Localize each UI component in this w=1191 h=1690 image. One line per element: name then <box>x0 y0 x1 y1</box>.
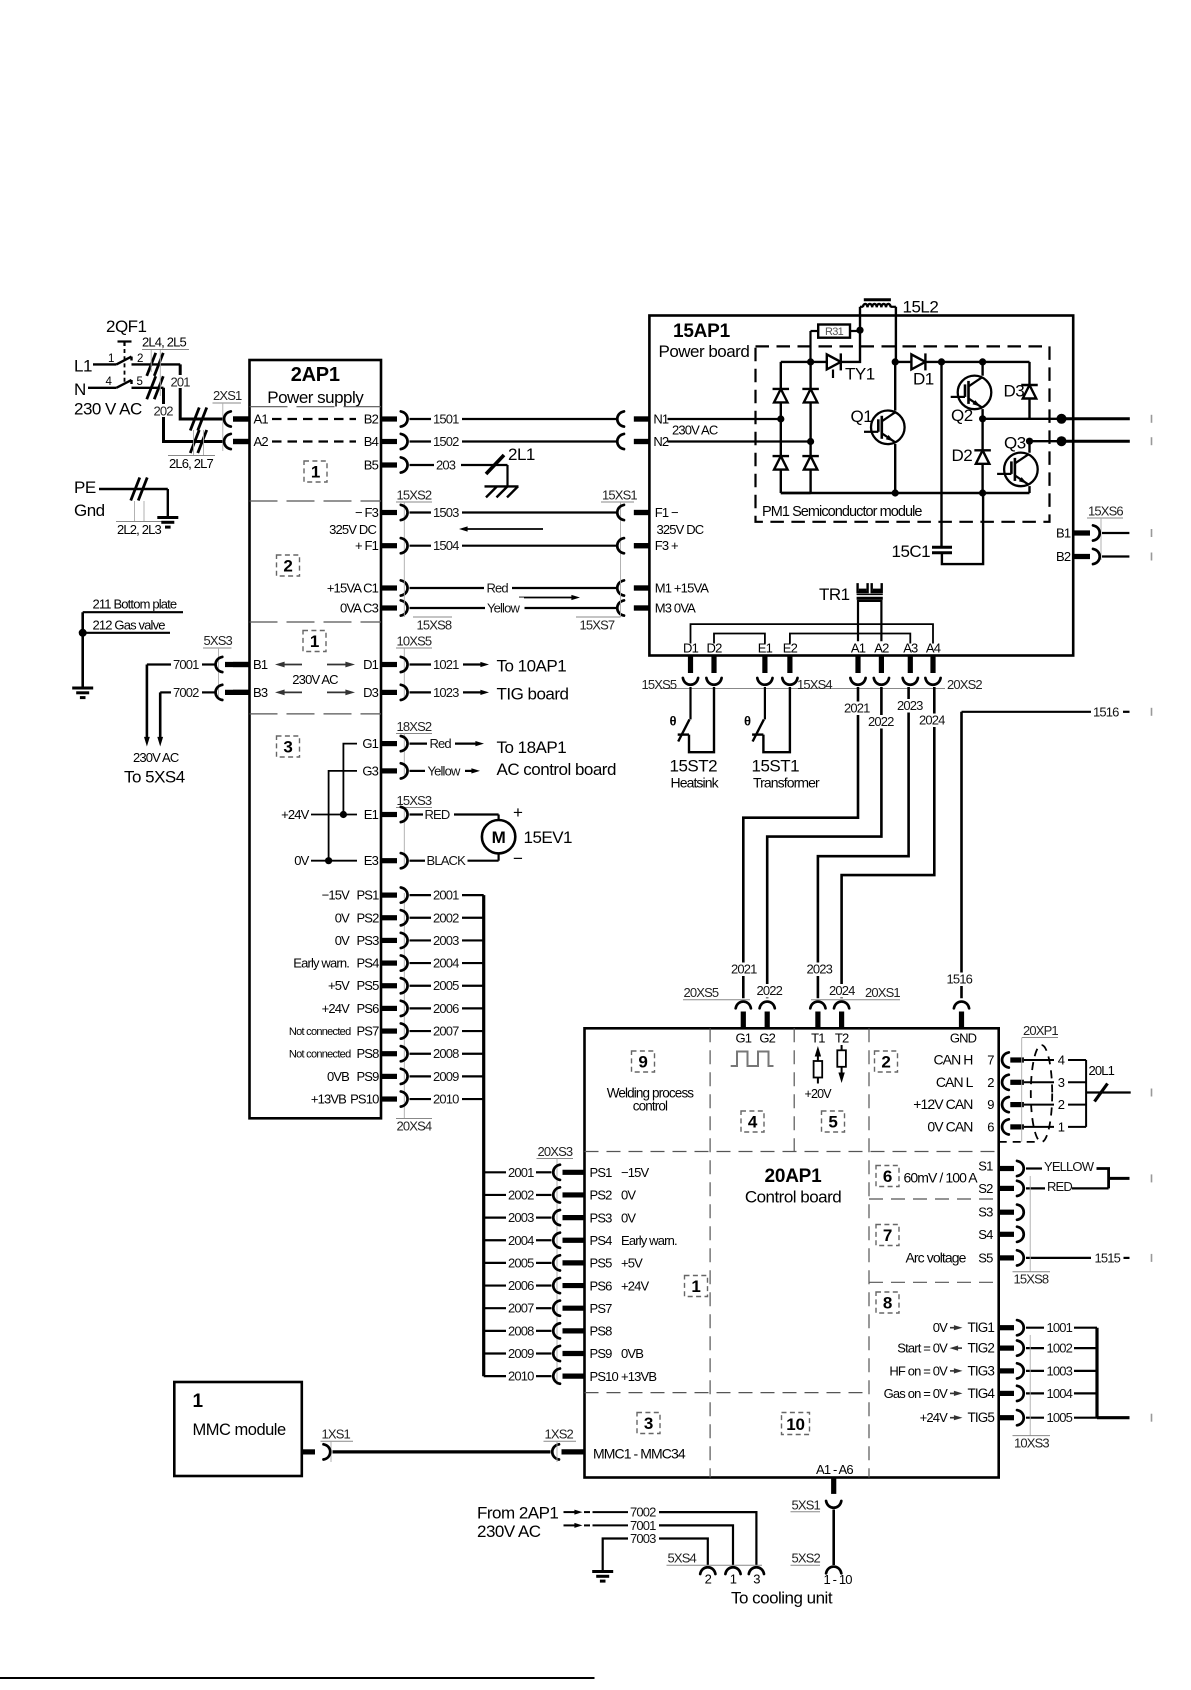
wire L1 <box>93 363 180 365</box>
svg-text:0VB: 0VB <box>327 1069 349 1084</box>
wire 2006 <box>401 1001 484 1016</box>
2AP1 pin D1 <box>363 657 397 672</box>
wire Q1 collector <box>894 362 896 411</box>
svg-text:2006: 2006 <box>433 1001 459 1016</box>
connector 15XS3 label <box>396 793 432 868</box>
svg-text:F1 −: F1 − <box>655 505 678 520</box>
connector 15XS1 label <box>601 488 637 561</box>
svg-text:0V: 0V <box>933 1320 948 1335</box>
20AP1 section box 5 <box>822 1111 845 1132</box>
2AP1 pin F1 <box>355 538 397 553</box>
ferrite 2L6, 2L7 <box>168 408 215 472</box>
20AP1 subtitle <box>745 1188 841 1207</box>
15AP1 pin A3 <box>903 641 918 674</box>
svg-text:T1: T1 <box>811 1031 825 1046</box>
wire 7003 bottom <box>603 1531 708 1571</box>
wire D1-A4 link <box>691 624 934 643</box>
20AP1 pin CAN L <box>936 1074 1086 1090</box>
connector 15XS7 label <box>576 560 621 633</box>
svg-text:1003: 1003 <box>1047 1363 1073 1378</box>
15AP1 pin E1 <box>758 641 773 674</box>
arrow Red/Yellow <box>519 595 580 600</box>
svg-text:control: control <box>633 1099 668 1114</box>
junction Q2 emitter <box>979 415 986 422</box>
bridge diode lower right <box>802 456 819 470</box>
wire 2023 <box>805 687 909 998</box>
20AP1 divider h2 <box>869 1198 999 1200</box>
label 325V DC 15AP1 <box>657 522 704 537</box>
svg-text:2009: 2009 <box>433 1069 459 1084</box>
connector 20XP1 label <box>1022 1023 1059 1142</box>
svg-text:PS7: PS7 <box>356 1024 379 1039</box>
2AP1 section box 2 <box>277 555 300 576</box>
svg-text:+24V: +24V <box>621 1278 650 1293</box>
svg-text:20XS1: 20XS1 <box>865 985 900 1000</box>
2AP1 pin E3 <box>364 853 397 868</box>
2AP1 wire G3-E3 <box>329 771 357 861</box>
svg-text:2007: 2007 <box>508 1301 534 1316</box>
svg-text:0VB: 0VB <box>621 1346 643 1361</box>
svg-text:Not connected: Not connected <box>289 1049 351 1061</box>
breaker 2QF1 <box>106 342 144 389</box>
20AP1 divider v3 <box>868 1028 870 1477</box>
svg-text:M: M <box>492 828 506 847</box>
junction Q2 collector <box>979 358 1030 365</box>
svg-text:E1: E1 <box>364 807 379 822</box>
20AP1 pin G2 <box>759 1031 775 1046</box>
svg-text:1XS1: 1XS1 <box>322 1427 351 1442</box>
transistor Q3 <box>997 434 1038 487</box>
wire Yellow G3 <box>401 763 480 778</box>
svg-text:2002: 2002 <box>433 910 459 925</box>
svg-text:B2: B2 <box>1056 549 1071 564</box>
svg-text:Start = 0V: Start = 0V <box>897 1341 948 1356</box>
wire 7002 down-arrow <box>157 692 163 746</box>
wire 1023 <box>401 685 489 700</box>
svg-text:5: 5 <box>137 376 143 388</box>
svg-text:TIG3: TIG3 <box>968 1363 995 1378</box>
wire 1503 <box>401 505 650 520</box>
transformer TR1 <box>819 583 883 641</box>
output junction lower <box>1057 436 1067 446</box>
connector 20XS1 <box>810 985 900 1008</box>
svg-text:G1: G1 <box>735 1031 751 1046</box>
svg-text:2004: 2004 <box>433 956 459 971</box>
page tick <box>1151 553 1153 561</box>
svg-text:B5: B5 <box>364 458 379 473</box>
svg-text:B3: B3 <box>253 685 268 700</box>
wire CAN bus <box>1085 1060 1087 1127</box>
20AP1 section box 3 <box>637 1413 660 1434</box>
wire Q2 out <box>983 418 1062 420</box>
svg-text:2002: 2002 <box>508 1187 534 1202</box>
15AP1 pin F1 <box>634 505 678 520</box>
connector 1XS1 <box>321 1427 354 1463</box>
svg-text:1501: 1501 <box>433 412 459 427</box>
svg-text:0V: 0V <box>621 1188 636 1203</box>
svg-text:PS3: PS3 <box>356 933 379 948</box>
svg-text:2008: 2008 <box>508 1323 534 1338</box>
wire 2021 <box>730 687 859 998</box>
15AP1 pin F3 <box>634 538 678 553</box>
svg-text:15XS8: 15XS8 <box>417 618 452 633</box>
svg-text:G1: G1 <box>362 736 378 751</box>
2AP1 section box 1b <box>303 631 326 652</box>
2AP1 wire G1-E1 <box>343 744 357 815</box>
svg-text:D1: D1 <box>913 370 934 389</box>
20AP1 pin GND <box>950 1031 977 1046</box>
svg-text:5: 5 <box>828 1113 837 1132</box>
svg-text:7002: 7002 <box>173 685 199 700</box>
2AP1 label 325V DC <box>329 522 376 537</box>
20AP1 pin S1 <box>978 1159 1042 1177</box>
svg-text:230V AC: 230V AC <box>133 750 179 765</box>
svg-text:2009: 2009 <box>508 1346 534 1361</box>
svg-text:+: + <box>513 803 523 822</box>
svg-text:1516: 1516 <box>947 972 973 987</box>
svg-text:G2: G2 <box>759 1031 775 1046</box>
svg-text:Red: Red <box>487 581 509 596</box>
label plus <box>513 803 523 822</box>
wire Q3 collector <box>1028 441 1030 453</box>
svg-text:PS4: PS4 <box>356 956 379 971</box>
svg-text:θ: θ <box>744 714 751 729</box>
svg-text:PS6: PS6 <box>356 1001 379 1016</box>
2AP1 label 230V AC <box>292 672 338 687</box>
svg-text:15L2: 15L2 <box>903 298 939 317</box>
20AP1 section box 4 <box>741 1111 764 1132</box>
svg-text:A1 - A6: A1 - A6 <box>816 1462 853 1477</box>
svg-text:20XS2: 20XS2 <box>947 677 982 692</box>
svg-text:15C1: 15C1 <box>892 542 931 561</box>
svg-text:20AP1: 20AP1 <box>765 1166 823 1187</box>
20AP1 divider v1 <box>709 1028 711 1477</box>
wire 203 <box>401 457 508 486</box>
svg-text:1502: 1502 <box>433 434 459 449</box>
label minus <box>513 849 523 868</box>
junction C1 return <box>979 489 986 496</box>
15AP1 pin A2 <box>874 641 889 674</box>
svg-text:Yellow: Yellow <box>487 601 520 616</box>
svg-text:From 2AP1: From 2AP1 <box>477 1504 558 1523</box>
15AP1 pin M3 <box>634 601 696 616</box>
svg-text:S2: S2 <box>978 1181 993 1196</box>
label Transformer <box>753 775 820 791</box>
2AP1 pin G1 <box>362 736 397 751</box>
20AP1 pin 0V CAN <box>927 1118 1086 1134</box>
svg-text:PE: PE <box>74 478 96 497</box>
svg-text:20L1: 20L1 <box>1089 1063 1115 1078</box>
svg-text:60mV / 100 A: 60mV / 100 A <box>904 1170 979 1186</box>
connector 20XS4 label <box>396 893 432 1134</box>
wire 1516 <box>962 704 1130 998</box>
wire bottom rail <box>781 492 1030 494</box>
junction R31/15L2 <box>856 327 863 334</box>
wire Q3 emitter <box>1028 486 1030 493</box>
label TIG board <box>497 685 569 704</box>
wire 2010 to 20AP1 PS10 <box>484 1369 657 1384</box>
wire E2-A3 link <box>790 634 910 644</box>
svg-text:+15VA C1: +15VA C1 <box>327 581 379 596</box>
wire 212 Gas valve <box>83 618 170 633</box>
svg-text:+20V: +20V <box>805 1087 833 1101</box>
svg-text:+24V: +24V <box>322 1001 351 1016</box>
svg-text:+12V CAN: +12V CAN <box>913 1096 972 1112</box>
svg-text:E3: E3 <box>364 853 379 868</box>
svg-text:−15V: −15V <box>322 888 351 903</box>
svg-text:2007: 2007 <box>433 1024 459 1039</box>
svg-text:CAN H: CAN H <box>933 1052 972 1068</box>
2AP1 section box 1 <box>304 461 327 482</box>
connector 10XS3 label <box>1013 1335 1051 1451</box>
svg-text:M3 0VA: M3 0VA <box>655 601 696 616</box>
wire 2007 <box>401 1023 484 1038</box>
2AP1 subtitle <box>267 388 364 407</box>
label 15ST1 <box>752 757 800 776</box>
svg-text:A1: A1 <box>254 412 269 427</box>
arrow 1503/1504 <box>459 526 543 531</box>
2AP1 pin C3 <box>340 601 397 616</box>
2AP1 pin PS6 <box>322 1001 397 1016</box>
connector 5XS3 <box>203 633 233 699</box>
20AP1 pin T1 <box>811 1031 825 1046</box>
svg-text:2: 2 <box>705 1572 712 1587</box>
wire Yellow C3 <box>401 598 650 616</box>
svg-text:325V DC: 325V DC <box>657 522 704 537</box>
2AP1 pin F3 <box>355 505 397 520</box>
svg-text:2L4, 2L5: 2L4, 2L5 <box>142 335 186 350</box>
2AP1 pin G3 <box>362 763 397 778</box>
svg-text:15ST2: 15ST2 <box>670 757 718 776</box>
20AP1 pin S3 <box>978 1205 1023 1220</box>
capacitor 15C1 <box>892 493 984 564</box>
thermal switch 15ST1 <box>744 687 790 752</box>
pin stub into 20AP1 <box>839 1012 844 1029</box>
wire 1021 <box>401 657 489 672</box>
svg-text:N1: N1 <box>653 412 669 427</box>
pin stub into 20AP1 <box>765 1012 770 1029</box>
connector 20XS5 <box>683 985 775 1008</box>
svg-text:9: 9 <box>987 1097 994 1112</box>
svg-text:0V: 0V <box>335 910 350 925</box>
svg-text:PS2: PS2 <box>590 1188 613 1203</box>
2AP1 pin PS4 <box>293 956 397 971</box>
pin stub into 20AP1 <box>741 1012 746 1029</box>
svg-text:To 10AP1: To 10AP1 <box>497 657 567 676</box>
junction Q1 emitter <box>892 489 899 496</box>
connector 15XS2 label <box>396 488 432 561</box>
svg-text:F3 +: F3 + <box>655 538 678 553</box>
wire Q1 emitter <box>894 444 896 493</box>
20AP1 pin +12V CAN <box>913 1096 1086 1112</box>
svg-text:2XS1: 2XS1 <box>213 388 242 403</box>
svg-text:D2: D2 <box>707 641 723 656</box>
svg-text:2024: 2024 <box>919 713 945 728</box>
2AP1 pin B4 <box>364 434 397 449</box>
cable shield ellipse <box>1031 1045 1052 1142</box>
junction top rail <box>807 358 814 365</box>
ferrite 20L1 <box>1086 1063 1131 1102</box>
svg-text:212 Gas valve: 212 Gas valve <box>93 618 166 633</box>
page tick <box>1151 1174 1153 1182</box>
thyristor TY1 <box>827 353 875 383</box>
ground PE <box>157 518 178 528</box>
label Heatsink <box>671 775 720 791</box>
svg-text:3: 3 <box>644 1414 653 1433</box>
wire 1501 <box>401 411 650 426</box>
transistor Q2 <box>951 376 992 425</box>
wire 7002 <box>160 685 249 700</box>
wire 2001 <box>401 888 484 903</box>
bridge diode upper right <box>802 389 819 403</box>
15AP1 pin A1 <box>851 641 866 674</box>
2AP1 pin D3 <box>363 685 397 700</box>
svg-text:202: 202 <box>154 404 174 419</box>
2AP1 pin B5 <box>364 458 397 473</box>
svg-text:PS5: PS5 <box>590 1256 613 1271</box>
svg-text:A4: A4 <box>926 641 941 656</box>
svg-text:+13VB: +13VB <box>621 1369 656 1384</box>
svg-text:HF on = 0V: HF on = 0V <box>889 1363 948 1378</box>
2AP1 junction G1/E1 <box>340 811 347 818</box>
2AP1 pin PS2 <box>335 910 397 925</box>
pin stub into 20AP1 <box>959 1012 964 1029</box>
svg-text:1: 1 <box>1058 1119 1065 1134</box>
label AC control board <box>497 760 616 779</box>
svg-text:S5: S5 <box>978 1250 993 1265</box>
wire 7001 down-arrow <box>144 665 150 747</box>
wire 2006 to 20AP1 PS6 <box>484 1278 650 1293</box>
bridge diode upper left <box>773 389 790 403</box>
svg-text:Gnd: Gnd <box>74 501 105 520</box>
wire PE <box>99 489 168 517</box>
2AP1 pin A1 <box>233 412 268 427</box>
ground 2L1 chassis <box>485 486 519 497</box>
PM1 label <box>762 504 922 520</box>
svg-text:7: 7 <box>987 1053 994 1068</box>
wire TY1 cathode <box>841 330 860 362</box>
wire 2009 <box>401 1069 484 1084</box>
svg-text:G3: G3 <box>362 763 378 778</box>
20AP1 section box 6 <box>876 1166 899 1187</box>
svg-text:15XS8: 15XS8 <box>1014 1272 1049 1287</box>
20AP1 section box 7 <box>876 1225 899 1246</box>
terminal PE Gnd label <box>74 478 105 520</box>
resistor R31 <box>811 325 858 362</box>
20AP1 pin S2 <box>978 1181 1045 1196</box>
svg-text:2021: 2021 <box>844 701 870 716</box>
svg-text:201: 201 <box>171 375 191 390</box>
15AP1 pin N2 <box>634 434 811 449</box>
svg-text:2010: 2010 <box>433 1092 459 1107</box>
svg-text:203: 203 <box>436 458 456 473</box>
svg-text:Transformer: Transformer <box>753 775 820 791</box>
diode D3 <box>1004 382 1038 401</box>
connector group line <box>660 688 945 690</box>
2AP1 internal dashed A1-B2 <box>272 418 356 420</box>
svg-text:E1: E1 <box>758 641 773 656</box>
wire Q2 collector <box>981 362 983 376</box>
diode D1 <box>895 353 941 388</box>
15AP1 pin B2 <box>1056 549 1129 564</box>
wire 2002 to 20AP1 PS2 <box>484 1187 637 1202</box>
svg-text:20XP1: 20XP1 <box>1023 1023 1058 1038</box>
svg-text:TIG4: TIG4 <box>968 1386 996 1401</box>
connector 15XS8 label <box>404 560 452 633</box>
svg-text:2: 2 <box>881 1053 890 1072</box>
svg-text:Power supply: Power supply <box>267 388 364 407</box>
svg-text:N: N <box>74 380 86 399</box>
svg-text:0V: 0V <box>294 853 309 868</box>
20AP1 section box 10 <box>782 1413 810 1435</box>
connector 5XS4 <box>667 1551 765 1587</box>
svg-text:+5V: +5V <box>621 1256 643 1271</box>
svg-text:2023: 2023 <box>897 698 923 713</box>
resistor T1 <box>805 1046 833 1101</box>
wire bridge right column <box>809 362 811 493</box>
page tick <box>1151 1089 1153 1097</box>
label Arc voltage <box>906 1250 967 1266</box>
connector 15XS5 <box>642 677 722 692</box>
svg-text:+5V: +5V <box>328 978 350 993</box>
svg-text:L1: L1 <box>74 357 92 376</box>
svg-text:1: 1 <box>310 632 319 651</box>
svg-text:15XS6: 15XS6 <box>1088 504 1123 519</box>
svg-text:6: 6 <box>883 1167 892 1186</box>
motor 15EV1 <box>482 820 572 853</box>
svg-text:2003: 2003 <box>433 933 459 948</box>
svg-text:0V: 0V <box>335 933 350 948</box>
svg-text:230V AC: 230V AC <box>477 1522 541 1541</box>
15AP1 pin M1 <box>634 581 709 596</box>
wire bridge left column <box>781 362 811 493</box>
svg-text:CAN L: CAN L <box>936 1074 974 1090</box>
svg-text:To 5XS4: To 5XS4 <box>124 768 185 787</box>
2AP1 pin PS1 <box>322 888 397 903</box>
svg-text:18XS2: 18XS2 <box>397 719 432 734</box>
20AP1 pin TIG3 <box>889 1363 1097 1378</box>
semiconductor module PM1 box <box>756 346 1050 521</box>
wire 15L2 left leg <box>859 307 861 330</box>
svg-text:6: 6 <box>987 1119 994 1134</box>
2AP1 title <box>291 364 340 386</box>
svg-text:2: 2 <box>283 557 292 576</box>
svg-text:2003: 2003 <box>508 1210 534 1225</box>
svg-text:5XS4: 5XS4 <box>668 1551 697 1566</box>
svg-text:1515: 1515 <box>1095 1250 1121 1265</box>
label To 10AP1 <box>497 657 567 676</box>
label To 5XS4 <box>124 768 185 787</box>
2AP1 pin A2 <box>233 434 268 449</box>
wire 2002 <box>401 910 484 925</box>
svg-text:1503: 1503 <box>433 505 459 520</box>
svg-text:15XS7: 15XS7 <box>580 618 615 633</box>
2AP1 divider 2 <box>250 500 382 502</box>
wire RED <box>1046 1179 1109 1195</box>
svg-text:Q1: Q1 <box>851 407 873 426</box>
connector 20XS3 label <box>537 1144 574 1385</box>
wire 2003 <box>401 933 484 948</box>
15AP1 pin E2 <box>783 641 798 674</box>
svg-text:TIG board: TIG board <box>497 685 569 704</box>
wire 2004 to 20AP1 PS4 <box>484 1233 677 1248</box>
svg-text:R31: R31 <box>825 326 844 338</box>
svg-text:PS8: PS8 <box>356 1046 379 1061</box>
svg-text:+24V: +24V <box>281 807 310 822</box>
svg-text:PS10: PS10 <box>590 1369 619 1384</box>
2AP1 pin B3 <box>233 685 268 700</box>
svg-text:2001: 2001 <box>433 888 459 903</box>
